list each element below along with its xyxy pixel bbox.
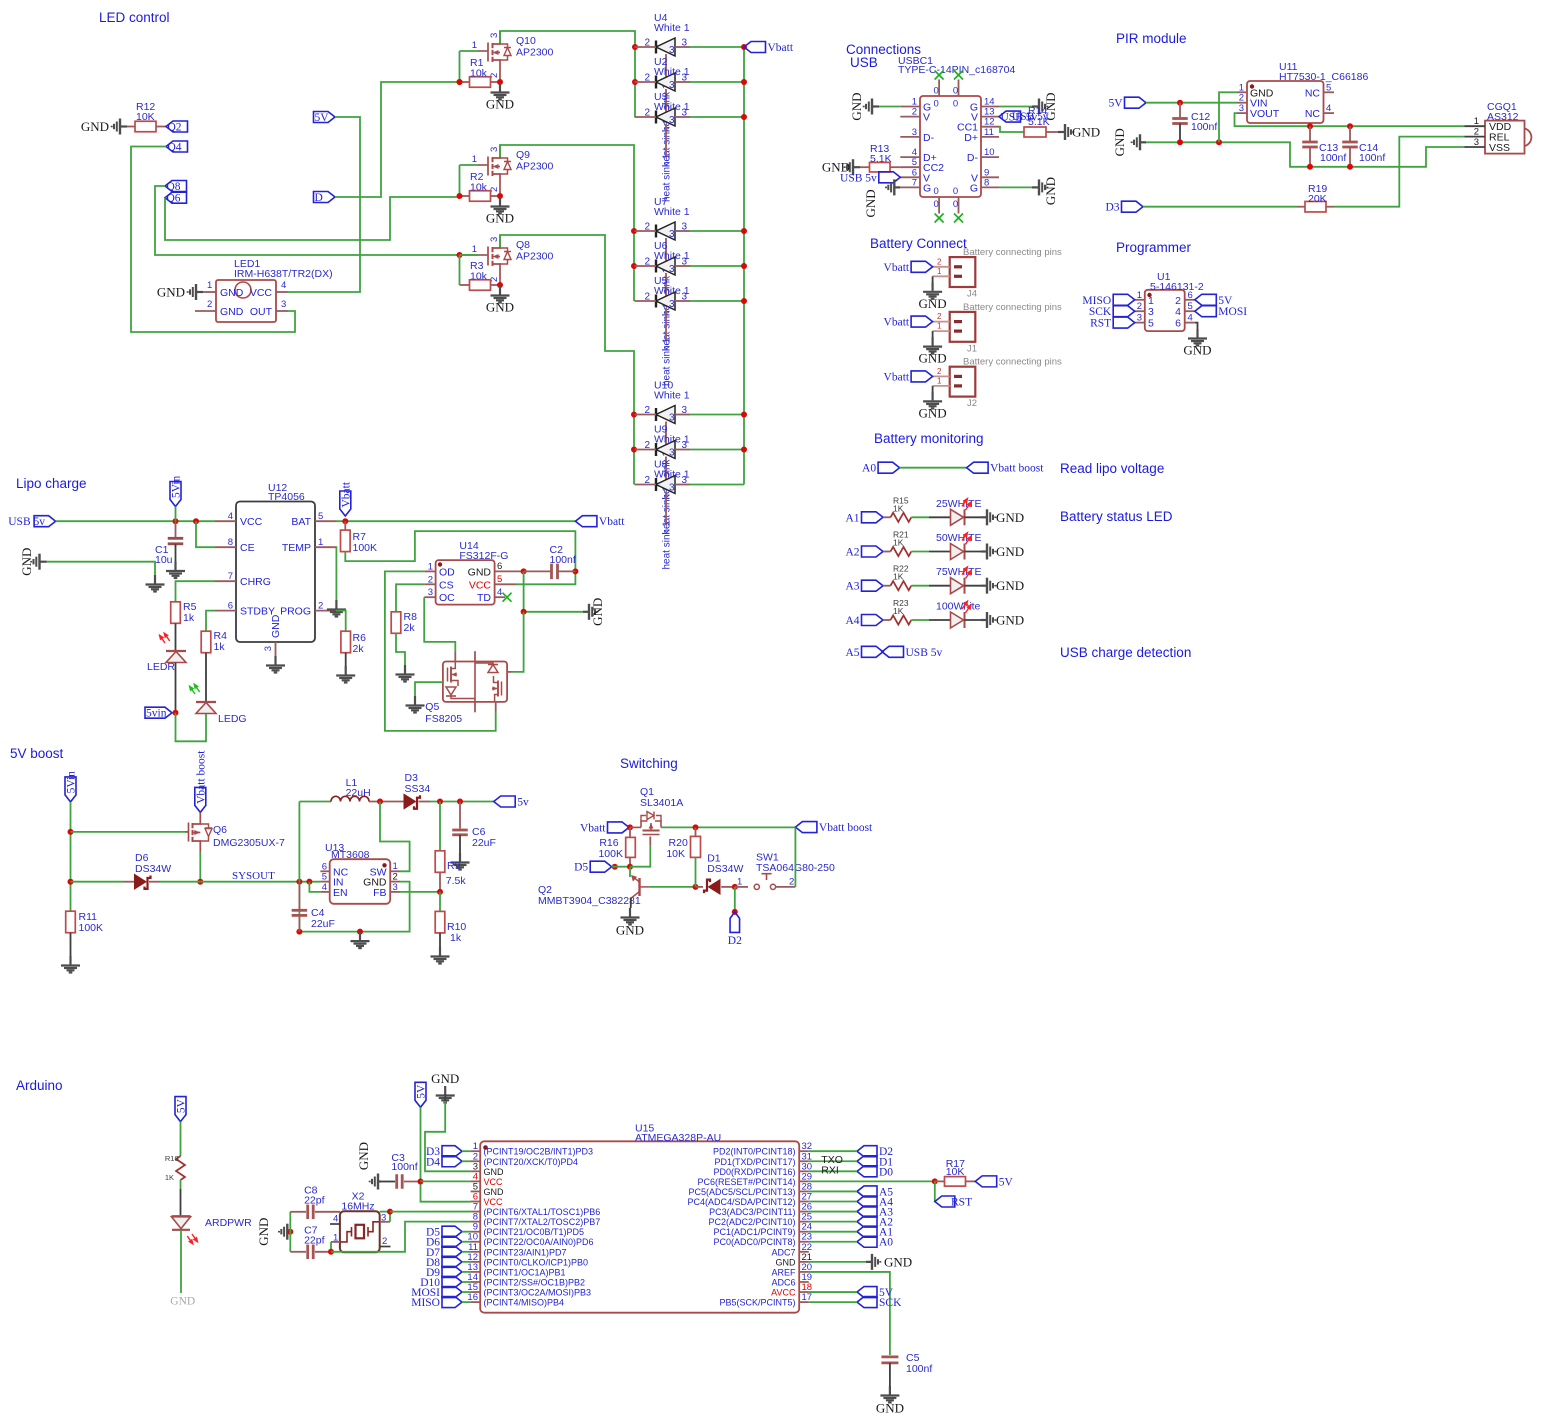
svg-text:AP2300: AP2300 <box>516 161 554 173</box>
svg-text:VCC: VCC <box>250 287 273 299</box>
pin 26 (PC3(ADC3/PCINT11)) of U15 <box>799 1211 809 1213</box>
svg-text:J2: J2 <box>967 398 977 409</box>
net flag RST <box>1113 317 1135 328</box>
pin 4 (TD) of U14 <box>495 596 505 598</box>
wire pin4 to GND <box>1195 323 1198 330</box>
net flag SCK <box>1113 306 1135 317</box>
resistor R16 <box>629 827 631 838</box>
capacitor C14 <box>1349 126 1351 141</box>
svg-text:0: 0 <box>953 199 958 210</box>
pin 7 (CHRG) of U12 <box>215 580 236 582</box>
pin 2 (VIN) of U11 <box>1237 102 1247 104</box>
svg-text:6: 6 <box>497 561 502 572</box>
svg-text:GND: GND <box>486 300 514 315</box>
svg-text:0: 0 <box>933 199 938 210</box>
wire FB row <box>400 891 440 893</box>
pin 15 ((PCINT3/OC2A/MOSI)PB3) of U15 <box>471 1291 481 1293</box>
capacitor C4 <box>298 882 300 909</box>
wire <box>690 449 744 451</box>
connector J2 <box>950 367 976 397</box>
Q5 internal common drain <box>474 662 476 702</box>
svg-text:100nf: 100nf <box>391 1161 417 1173</box>
wire GND to ground symbol <box>47 562 156 576</box>
junction <box>68 829 74 835</box>
svg-text:R9: R9 <box>447 860 461 872</box>
wire A0 to Vbatt boost <box>900 467 967 469</box>
svg-text:100nf: 100nf <box>906 1363 932 1375</box>
pin 30 (PD0(RXD/PCINT16)) of U15 <box>799 1170 809 1172</box>
junction <box>627 824 633 830</box>
svg-text:1K: 1K <box>893 572 904 582</box>
svg-text:CHRG: CHRG <box>240 576 271 588</box>
svg-text:100K: 100K <box>353 542 378 554</box>
svg-text:8: 8 <box>984 177 989 188</box>
svg-text:3: 3 <box>669 80 675 91</box>
LED U9 <box>656 441 675 459</box>
svg-text:A5: A5 <box>845 647 859 659</box>
net flag MOSI (U15) <box>442 1287 462 1298</box>
net flag MISO <box>1113 294 1135 305</box>
svg-text:4: 4 <box>1326 103 1331 114</box>
wire <box>491 81 501 83</box>
svg-text:D: D <box>315 192 323 204</box>
svg-text:2: 2 <box>1137 301 1142 312</box>
svg-text:10k: 10k <box>470 271 488 283</box>
junction <box>693 824 699 830</box>
ground GND (A1 row) <box>981 509 995 525</box>
svg-text:GND: GND <box>1072 125 1100 140</box>
wire base Q2 up <box>629 867 631 877</box>
net flag Vbatt boost <box>967 462 989 473</box>
svg-text:100K: 100K <box>598 848 623 860</box>
svg-text:1: 1 <box>472 40 477 51</box>
connector J1 <box>950 312 976 342</box>
resistor R2 <box>460 195 470 197</box>
net flag D6 (U15) <box>442 1236 462 1247</box>
pin 1 of J1 <box>933 330 950 332</box>
svg-text:2: 2 <box>428 574 433 585</box>
svg-text:Battery status LED: Battery status LED <box>1060 509 1173 524</box>
ground GND (PIR) <box>1132 134 1146 150</box>
no-connect X <box>954 71 963 80</box>
emission arrows ARDPWR <box>186 1232 199 1246</box>
junction <box>418 1179 424 1185</box>
pin 4 (VCC) of U12 <box>215 520 236 522</box>
pin 2 of LED1 <box>195 310 216 312</box>
connector J4 <box>950 257 976 287</box>
svg-text:6: 6 <box>228 601 233 612</box>
ground GND (USB pin14) <box>1032 99 1047 115</box>
svg-text:4: 4 <box>228 511 233 522</box>
net flag Vbatt <box>744 42 766 53</box>
svg-text:GND: GND <box>884 1254 912 1269</box>
svg-text:G: G <box>970 182 978 194</box>
wire Q6 source down <box>199 852 201 882</box>
svg-text:Lipo charge: Lipo charge <box>16 476 87 491</box>
heat-sink pin 1 of U7 <box>665 238 667 271</box>
svg-text:2: 2 <box>912 107 917 118</box>
net flag D <box>314 192 336 203</box>
svg-text:(PCINT3/OC2A/MOSI)PB3: (PCINT3/OC2A/MOSI)PB3 <box>484 1288 592 1298</box>
svg-text:2: 2 <box>644 257 650 268</box>
svg-text:1: 1 <box>1148 295 1154 307</box>
pin 23 (PC0(ADC0/PCINT8)) of U15 <box>799 1241 809 1243</box>
svg-text:GND: GND <box>1183 343 1211 358</box>
ground (C1) <box>166 562 185 579</box>
pin 10 (D-) of USBC1 <box>981 156 999 158</box>
svg-text:(PCINT23/AIN1)PD7: (PCINT23/AIN1)PD7 <box>484 1247 567 1257</box>
svg-text:Q6: Q6 <box>167 193 181 205</box>
wire REL to R19 <box>1334 137 1465 207</box>
pin 3 (D-) of USBC1 <box>900 136 920 138</box>
net flag 5V <box>314 112 336 123</box>
svg-text:Q6: Q6 <box>213 824 227 836</box>
junction <box>1177 100 1183 106</box>
heat-sink pin 1 of U9 <box>665 457 667 490</box>
svg-text:5Vin: 5Vin <box>66 771 78 794</box>
resistor R7 <box>344 521 346 530</box>
svg-text:3: 3 <box>428 587 433 598</box>
svg-text:EN: EN <box>333 887 348 899</box>
svg-text:4: 4 <box>1175 306 1181 318</box>
junction <box>437 799 443 805</box>
svg-text:White 1: White 1 <box>654 66 690 78</box>
svg-text:LED control: LED control <box>99 10 170 25</box>
ground GND (J4) <box>923 282 942 299</box>
heat-sink pin 1 of U4 <box>665 54 667 87</box>
wire D3 junction to R9 <box>439 802 441 851</box>
svg-text:GND: GND <box>863 189 878 217</box>
pin 2 (V) of USBC1 <box>900 116 920 118</box>
pin 4 of U1 (right) <box>1185 322 1195 324</box>
svg-text:5v: 5v <box>517 797 529 809</box>
svg-text:20K: 20K <box>1308 193 1327 205</box>
svg-text:3: 3 <box>669 45 675 56</box>
resistor R19 <box>1305 201 1326 212</box>
resistor R3 <box>460 284 470 286</box>
svg-text:GND: GND <box>256 1218 271 1246</box>
svg-text:3: 3 <box>669 264 675 275</box>
wire pin1 to GND (J4) <box>932 276 934 283</box>
wire OD loop to Q5 <box>385 571 496 731</box>
resistor R15 <box>883 516 891 518</box>
Q5 internal FET B <box>492 676 502 702</box>
wire TEMP to ground <box>335 547 337 601</box>
pin 8 (CE) of U12 <box>215 546 236 548</box>
svg-text:White 1: White 1 <box>654 434 690 446</box>
capacitor C8 <box>290 1211 306 1213</box>
ground GND (A3 row) <box>981 578 995 594</box>
svg-text:0: 0 <box>933 186 938 197</box>
svg-text:Vbatt: Vbatt <box>599 516 625 528</box>
pin 2 of X2 (NC) <box>380 1246 391 1248</box>
svg-text:0: 0 <box>953 186 958 197</box>
wire FB to R10 <box>439 892 441 912</box>
wire <box>690 81 744 83</box>
svg-text:Vbatt: Vbatt <box>884 317 910 329</box>
wire to 5v <box>430 801 494 803</box>
first-pin marker U13 <box>382 863 386 867</box>
svg-text:PC0(ADC0/PCINT8): PC0(ADC0/PCINT8) <box>713 1237 795 1247</box>
wire D3 to R19 <box>1143 206 1297 208</box>
resistor R11 <box>66 911 76 933</box>
wire CHRG to R5 <box>176 581 216 602</box>
svg-text:USB 5v: USB 5v <box>840 172 877 184</box>
net flag Vbatt (J1) <box>911 316 933 327</box>
ground <box>491 83 510 100</box>
no-connect X (TD) <box>503 593 512 602</box>
capacitor C3 <box>381 1181 395 1183</box>
junction <box>1347 123 1353 129</box>
wire <box>491 195 501 197</box>
wire <box>180 1180 182 1189</box>
junction <box>741 298 747 304</box>
net flag USB 5v (pin6) <box>879 172 901 183</box>
svg-text:3: 3 <box>281 299 286 310</box>
net flag RST <box>935 1196 955 1207</box>
pin 1 (SW) of U13 <box>390 870 400 872</box>
svg-text:PD0(RXD/PCINT16): PD0(RXD/PCINT16) <box>713 1167 795 1177</box>
wire <box>70 933 72 957</box>
svg-text:100nf: 100nf <box>1359 152 1385 164</box>
net flag D5 (U15) <box>442 1226 462 1237</box>
pin 1 of LED1 <box>203 291 216 293</box>
shell pin 0 of USBC1 (top) <box>958 80 960 97</box>
svg-text:3: 3 <box>912 127 917 138</box>
pin 14 ((PCINT2/SS#/OC1B)PB2) of U15 <box>471 1281 481 1283</box>
junction <box>741 114 747 120</box>
wire <box>345 653 347 667</box>
wire <box>911 619 929 621</box>
svg-text:IRM-H638T/TR2(DX): IRM-H638T/TR2(DX) <box>234 268 333 280</box>
svg-text:G: G <box>923 182 931 194</box>
ground GND (R14) <box>1058 124 1073 140</box>
svg-text:NC: NC <box>1305 108 1321 120</box>
wire pin1 to GND (J2) <box>932 386 934 393</box>
svg-text:2: 2 <box>1239 93 1244 104</box>
junction <box>457 193 463 199</box>
junction <box>741 263 747 269</box>
ground GND (J2) <box>923 392 942 409</box>
heat-sink pin 1 of U6 <box>665 273 667 306</box>
wire net D to R1/Q10 gate <box>335 82 460 197</box>
svg-text:0: 0 <box>933 86 938 97</box>
wire pin1 to GND (J1) <box>932 331 934 338</box>
first-pin marker U11 <box>1250 84 1254 88</box>
svg-text:RST: RST <box>951 1197 972 1209</box>
svg-text:White 1: White 1 <box>654 250 690 262</box>
junction <box>457 252 463 258</box>
svg-text:Q9: Q9 <box>516 149 530 161</box>
svg-text:5Vin: 5Vin <box>171 475 183 498</box>
svg-text:GND: GND <box>157 285 185 300</box>
svg-text:J4: J4 <box>967 289 977 300</box>
svg-text:CE: CE <box>240 542 255 554</box>
emission arrows LEDG <box>188 682 201 696</box>
svg-text:PC2(ADC2/PCINT10): PC2(ADC2/PCINT10) <box>708 1217 795 1227</box>
svg-text:(PCINT20/XCK/T0)PD4: (PCINT20/XCK/T0)PD4 <box>484 1157 579 1167</box>
pin 2 (CS) of U14 <box>424 583 435 585</box>
junction <box>296 929 302 935</box>
svg-text:A0: A0 <box>879 1237 893 1249</box>
resistor R20 <box>695 827 697 836</box>
resistor R12 <box>135 121 156 132</box>
junction <box>627 864 633 870</box>
svg-text:6: 6 <box>1188 290 1193 301</box>
pin 25 (PC2(ADC2/PCINT10)) of U15 <box>799 1221 809 1223</box>
wire <box>612 866 630 868</box>
svg-text:4: 4 <box>497 587 502 598</box>
wire net Q6 to R2/Q9 gate <box>165 197 460 240</box>
LED 50WHITE <box>951 544 964 560</box>
junction <box>357 929 363 935</box>
svg-text:5vin: 5vin <box>146 708 167 720</box>
net flag A2 <box>862 546 884 557</box>
svg-text:2: 2 <box>937 312 942 321</box>
ground (U12 pin3) <box>266 656 285 673</box>
wire <box>205 653 207 702</box>
svg-text:ADC6: ADC6 <box>771 1277 795 1287</box>
wire OC to Q5 gate <box>424 597 455 651</box>
pin 2 ((PCINT20/XCK/T0)PD4) of U15 <box>471 1160 481 1162</box>
svg-text:Battery monitoring: Battery monitoring <box>874 431 984 446</box>
svg-text:AVCC: AVCC <box>771 1288 796 1298</box>
svg-text:VCC: VCC <box>240 516 263 528</box>
pin 20 (AREF) of U15 <box>799 1271 809 1273</box>
wire left rail down <box>298 802 300 932</box>
svg-text:ADC7: ADC7 <box>771 1247 795 1257</box>
svg-text:2: 2 <box>644 73 650 84</box>
wire crystal left rail <box>289 1212 291 1252</box>
svg-text:SL3401A: SL3401A <box>640 797 683 809</box>
svg-text:2: 2 <box>644 38 650 49</box>
net flag A2 (U15) <box>857 1216 877 1227</box>
svg-text:GND: GND <box>220 306 244 318</box>
svg-text:3: 3 <box>669 299 675 310</box>
pin 4 (VCC) of U15 <box>471 1180 481 1182</box>
svg-text:1: 1 <box>393 861 398 872</box>
svg-text:D+: D+ <box>964 132 978 144</box>
pin 1 ((PCINT19/OC2B/INT1)PD3) of U15 <box>471 1150 481 1152</box>
svg-text:A1: A1 <box>845 512 859 524</box>
svg-text:CS: CS <box>439 579 454 591</box>
svg-text:22uF: 22uF <box>472 837 496 849</box>
net flag A4 <box>862 615 884 626</box>
wire gate Q6 <box>71 831 186 833</box>
wire 5Vin down <box>70 802 72 911</box>
wire CS to R8 <box>396 584 424 612</box>
pin 28 (PC5(ADC5/SCL/PCINT13)) of U15 <box>799 1190 809 1192</box>
svg-text:GND: GND <box>356 1142 371 1170</box>
transistor Q9 <box>478 145 500 196</box>
net flag 5V (U15) <box>415 1082 426 1107</box>
wire 5V to VIN <box>1146 102 1237 104</box>
svg-text:1K: 1K <box>893 538 904 548</box>
svg-text:3: 3 <box>489 33 500 38</box>
wire PROG to R6 <box>336 611 346 632</box>
svg-text:10k: 10k <box>470 182 488 194</box>
svg-text:2: 2 <box>644 405 650 416</box>
pin 11 (D+) of USBC1 <box>981 136 999 138</box>
junction <box>741 79 747 85</box>
ground GND (USB pin7) <box>886 179 900 195</box>
svg-text:3: 3 <box>1239 103 1244 114</box>
svg-text:1: 1 <box>1474 116 1479 127</box>
svg-text:GND: GND <box>1043 177 1058 205</box>
svg-text:22pf: 22pf <box>304 1235 325 1247</box>
svg-text:GND: GND <box>996 544 1024 559</box>
svg-text:4: 4 <box>333 1214 338 1225</box>
MCU U15 <box>480 1141 799 1312</box>
net port Q2 <box>166 121 188 132</box>
emission arrows <box>960 497 973 511</box>
svg-text:R18: R18 <box>165 1154 179 1163</box>
heat-sink pin 1 of U8 <box>665 492 667 525</box>
svg-text:GND: GND <box>919 351 947 366</box>
svg-text:22pf: 22pf <box>304 1195 325 1207</box>
switch SW1 <box>735 886 748 888</box>
svg-text:GND: GND <box>849 92 864 120</box>
wire <box>690 265 744 267</box>
resistor R17 <box>935 1180 945 1182</box>
wire net Q8 to R3/Q8 gate <box>155 186 478 255</box>
net port Q4 <box>166 141 188 152</box>
junction <box>197 879 203 885</box>
svg-text:GND: GND <box>270 614 282 638</box>
svg-text:D0: D0 <box>879 1166 893 1178</box>
LED U10 <box>656 406 675 424</box>
svg-text:1k: 1k <box>450 932 462 944</box>
first-pin marker U14 <box>438 562 442 566</box>
svg-text:0: 0 <box>933 99 938 110</box>
pin 5 of U1 (right) <box>1185 310 1195 312</box>
svg-text:Battery connecting pins: Battery connecting pins <box>963 357 1062 368</box>
svg-text:5V: 5V <box>1218 295 1233 307</box>
wire drain Q8 to U10 column <box>500 235 634 485</box>
ground GND (C3) <box>370 1174 381 1190</box>
net flag A5 (U15) <box>857 1186 877 1197</box>
ground (left) <box>146 575 165 592</box>
svg-text:GND: GND <box>590 598 605 626</box>
wire gate of Q9 <box>459 165 461 196</box>
LED LEDG <box>196 701 216 703</box>
ground GND (at R12) <box>112 119 127 135</box>
junction <box>1177 139 1183 145</box>
wire pin3 to XTAL1 row <box>380 1221 390 1223</box>
wire RESET row <box>809 1180 935 1182</box>
net flag Vbatt (BAT pin) <box>340 491 351 516</box>
svg-text:2: 2 <box>644 440 650 451</box>
wire gate of Q8 <box>459 255 461 285</box>
pins of Q5 <box>454 651 456 661</box>
pin 3 (VSS) of CGQ1 <box>1465 146 1486 148</box>
svg-text:USB 5v: USB 5v <box>8 516 45 528</box>
pin 11 ((PCINT23/AIN1)PD7) of U15 <box>471 1251 481 1253</box>
Q5 internal diode A <box>446 687 456 695</box>
svg-text:0: 0 <box>953 99 958 110</box>
pin 1 of J4 <box>933 275 950 277</box>
wire pin8 to GND <box>999 186 1032 188</box>
wire EN tie to IN <box>309 882 320 892</box>
IR receiver LED1 <box>216 280 276 322</box>
svg-text:2: 2 <box>318 601 323 612</box>
net flag A3 (U15) <box>857 1206 877 1217</box>
junction <box>1216 139 1222 145</box>
wire XTAL2 row <box>331 1222 471 1252</box>
svg-text:Vbatt: Vbatt <box>884 371 910 383</box>
svg-text:RST: RST <box>1090 318 1111 330</box>
pin 16 ((PCINT4/MISO)PB4) of U15 <box>471 1301 481 1303</box>
